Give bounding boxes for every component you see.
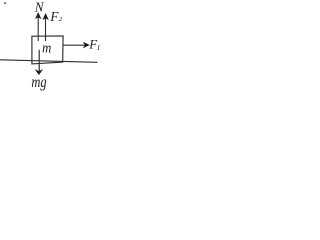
- svg-text:m: m: [42, 40, 51, 56]
- svg-text:1: 1: [97, 43, 101, 52]
- svg-text:mg: mg: [31, 74, 46, 92]
- svg-text:N: N: [34, 0, 45, 14]
- svg-text:F: F: [49, 9, 59, 24]
